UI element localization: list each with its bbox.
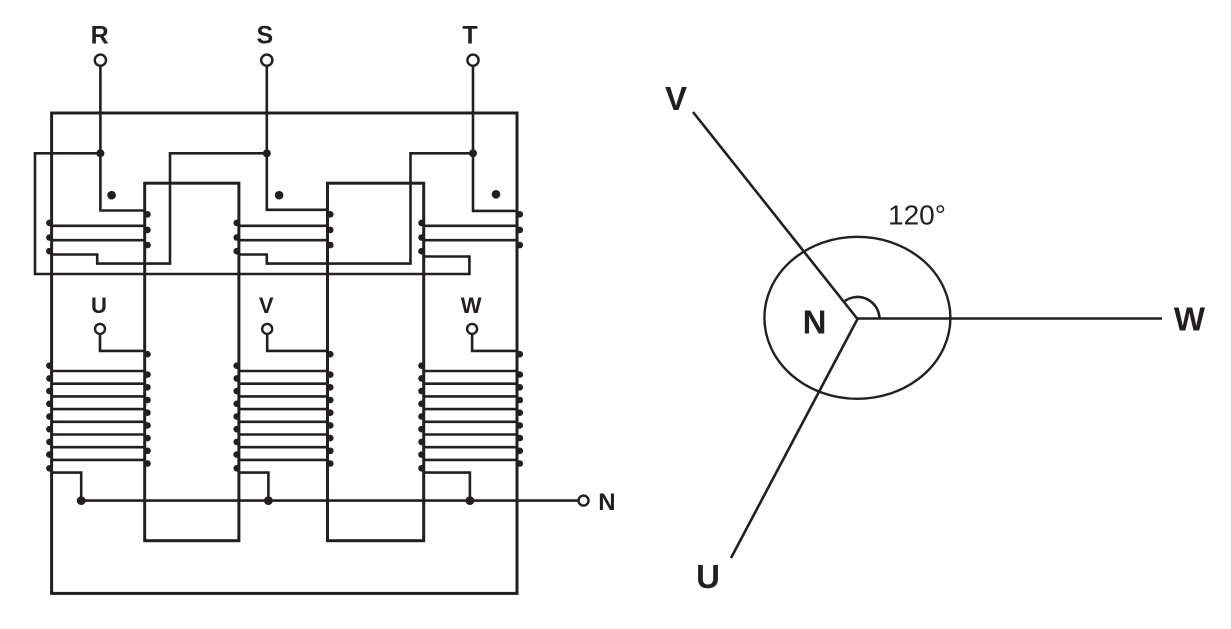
wire primary P2 end to T (delta): [239, 153, 473, 263]
svg-text:N: N: [598, 489, 615, 516]
svg-text:U: U: [91, 293, 107, 318]
terminal U circle: [95, 324, 105, 334]
junction dot neutral node 1: [77, 496, 86, 505]
primary winding P1 right-end dots: [144, 211, 151, 248]
wire T to primary P3 start: [473, 66, 517, 211]
secondary winding S1 right-end dots: [144, 351, 151, 467]
terminal W circle: [467, 324, 477, 334]
polarity dot primary P3: [492, 190, 501, 199]
svg-text:S: S: [256, 22, 273, 50]
svg-text:W: W: [1174, 301, 1206, 338]
phasor vector W: [858, 317, 1163, 320]
junction node T: [469, 149, 477, 157]
terminal T circle: [467, 55, 478, 66]
wire R to primary P1 start: [100, 66, 144, 211]
secondary winding S2 turns: [239, 371, 328, 460]
primary winding P1 left-end dots: [46, 220, 53, 255]
svg-text:W: W: [461, 293, 482, 318]
secondary winding S1 left-end dots: [46, 362, 53, 471]
primary winding P2 left-end dots: [233, 220, 240, 255]
secondary winding S3 right-end dots: [517, 351, 524, 467]
wire secondary S2 end to neutral bus: [239, 473, 269, 501]
secondary winding S3 left-end dots: [418, 362, 425, 471]
primary winding P2 turns: [239, 226, 328, 240]
svg-text:V: V: [259, 293, 274, 318]
terminal R circle: [95, 55, 106, 66]
svg-text:T: T: [462, 22, 477, 50]
junction dot neutral node 3: [466, 496, 475, 505]
primary winding P2 right-end dots: [327, 211, 334, 248]
wire secondary S1 end to neutral bus: [52, 473, 82, 501]
svg-text:R: R: [91, 22, 109, 50]
polarity dot primary P1: [107, 191, 116, 200]
secondary winding S1 turns: [52, 371, 145, 460]
terminal N circle: [579, 496, 589, 506]
primary winding P1 turns: [52, 226, 145, 240]
core window 2: [328, 183, 424, 541]
primary winding P3 left-end dots: [418, 220, 425, 255]
junction node S: [263, 149, 271, 157]
junction node R: [96, 149, 104, 157]
terminal S circle: [261, 55, 272, 66]
secondary winding S3 turns: [424, 371, 517, 460]
secondary winding S2 left-end dots: [233, 362, 240, 471]
angle arc 120 degrees: [844, 297, 880, 319]
primary winding P3 turns: [424, 226, 517, 240]
transformer core T1 outer outline: [52, 113, 517, 593]
wire primary P1 end to S (delta): [52, 153, 267, 263]
svg-text:U: U: [696, 558, 720, 595]
phasor vector V: [693, 112, 858, 319]
wire secondary S3 end to neutral bus: [424, 473, 470, 501]
neutral bus wire N: [81, 499, 577, 502]
junction dot neutral node 2: [264, 496, 273, 505]
primary winding P3 right-end dots: [517, 211, 524, 248]
svg-text:V: V: [665, 80, 687, 117]
terminal V circle: [262, 324, 272, 334]
svg-text:120°: 120°: [888, 200, 946, 231]
polarity dot primary P2: [275, 191, 284, 200]
phasor vector U: [731, 319, 858, 558]
wire S to primary P2 start: [267, 66, 328, 210]
wire V to secondary S2 start: [267, 334, 327, 351]
phasor neutral circle N: [764, 237, 950, 399]
core window 1: [145, 183, 239, 541]
wire primary P3 end to R (delta): [35, 153, 469, 274]
wire W to secondary S3 start: [472, 334, 517, 351]
wire U to secondary S1 start: [100, 334, 145, 351]
svg-text:N: N: [803, 304, 827, 341]
secondary winding S2 right-end dots: [327, 351, 334, 467]
